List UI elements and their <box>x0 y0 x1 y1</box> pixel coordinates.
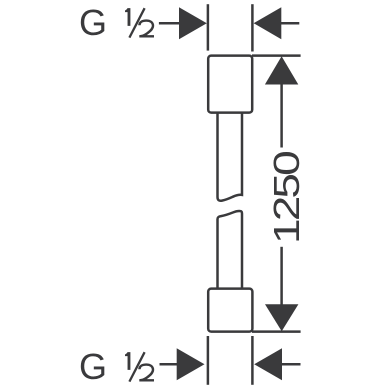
top dimension extension line left <box>207 4 210 50</box>
top label fraction denominator 2 <box>139 21 154 37</box>
top dimension extension line right <box>251 4 254 51</box>
bottom arrow right-pointing tail <box>160 363 179 366</box>
hose lower segment walls with wavy break start <box>218 211 243 289</box>
svg-text:1250: 1250 <box>267 151 307 244</box>
bottom label fraction slash <box>129 352 144 381</box>
top arrowhead pointing left <box>254 7 282 39</box>
top connector nut <box>208 56 252 113</box>
bottom arrowhead pointing left <box>254 348 282 380</box>
bottom connector nut <box>208 289 252 332</box>
1250 arrowhead pointing down <box>265 304 298 331</box>
bottom dimension extension line left <box>207 336 210 385</box>
top arrowhead pointing right <box>179 7 207 39</box>
svg-text:G: G <box>79 346 107 387</box>
bottom arrow left-pointing tail <box>281 363 301 366</box>
hose upper segment walls with wavy break end <box>218 113 243 201</box>
svg-text:G: G <box>79 2 107 43</box>
bottom label fraction denominator 2 <box>139 365 154 381</box>
top label fraction slash <box>129 8 144 37</box>
1250 dimension line lower part <box>280 247 283 305</box>
bottom label fraction numerator 1 <box>125 352 130 370</box>
top arrow right-pointing tail <box>159 22 181 25</box>
1250 dimension top extension line <box>252 54 301 57</box>
bottom arrowhead pointing right <box>177 348 205 380</box>
top arrow left-pointing tail <box>281 22 300 25</box>
1250 dimension bottom extension line <box>252 330 301 333</box>
top label fraction numerator 1 <box>125 8 130 26</box>
bottom dimension extension line right <box>251 336 254 385</box>
1250 dimension line upper part <box>280 84 283 148</box>
1250 arrowhead pointing up <box>265 56 298 84</box>
